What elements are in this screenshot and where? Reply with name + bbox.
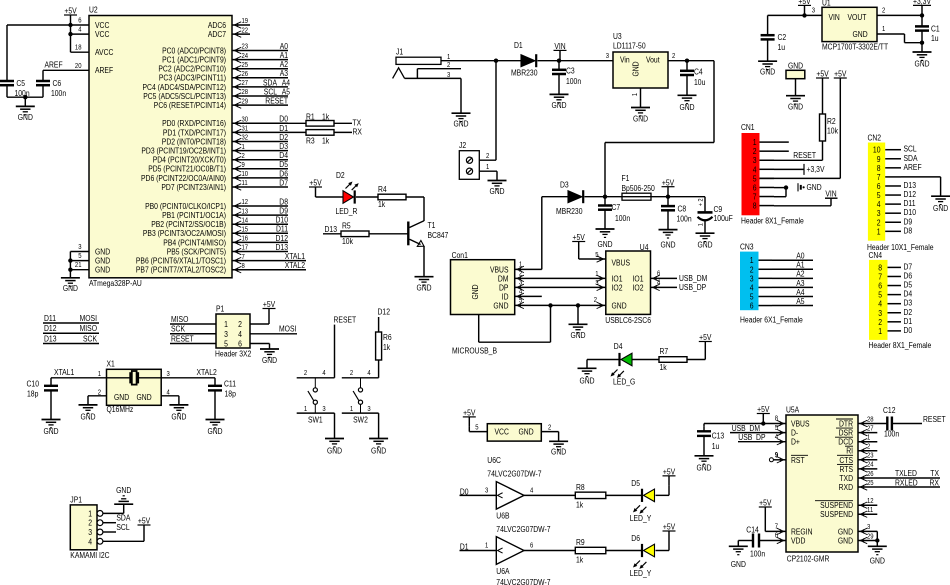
svg-text:PB5 (SCK/PCINT5): PB5 (SCK/PCINT5)	[167, 247, 227, 256]
svg-text:A1: A1	[280, 51, 289, 60]
power +5V for CP2102 VBUS	[757, 405, 770, 425]
svg-text:GND: GND	[327, 447, 342, 456]
svg-text:+5V: +5V	[663, 523, 676, 532]
svg-text:5: 5	[877, 191, 881, 200]
svg-text:IO2: IO2	[633, 283, 644, 292]
U2 pin 2 PD4 (PCINT20/XCK/T0) net D4	[153, 151, 289, 165]
U2 pin 31 PD1 (TXD/PCINT17) net D1	[163, 124, 289, 138]
U5A pin 23 CTS	[837, 453, 874, 465]
U2 pin 16 PB4 (PCINT4/MISO) net D12	[163, 234, 288, 248]
U5A pin 11 SUSPEND	[820, 507, 873, 519]
wire D5 to +5V	[656, 486, 670, 496]
wire AREF net	[43, 61, 89, 71]
svg-text:GND: GND	[612, 301, 627, 310]
svg-text:25: 25	[867, 480, 874, 487]
resistor R7 1k	[632, 347, 687, 372]
svg-text:CTS: CTS	[839, 456, 853, 465]
svg-text:8: 8	[877, 164, 881, 173]
svg-text:10k: 10k	[342, 237, 354, 246]
U5A pin 4 D+	[775, 434, 800, 447]
svg-text:PB2 (PCINT2/SS/OC1B): PB2 (PCINT2/SS/OC1B)	[151, 220, 226, 229]
resistor R2 10k vertical	[820, 88, 839, 160]
svg-text:4: 4	[530, 488, 533, 495]
ground C1/U1	[913, 43, 932, 69]
net D0 input wire	[460, 487, 503, 498]
svg-text:D12: D12	[904, 190, 917, 199]
svg-text:SDA: SDA	[116, 514, 131, 523]
svg-text:F1: F1	[622, 174, 630, 183]
wire P1 RESET	[170, 334, 216, 343]
svg-text:PB6 (PCINT6/XTAL1/TOSC1): PB6 (PCINT6/XTAL1/TOSC1)	[136, 257, 226, 266]
svg-text:D13: D13	[325, 225, 338, 234]
svg-text:J1: J1	[396, 48, 404, 57]
power +5V for JP1	[138, 517, 151, 535]
svg-text:8: 8	[242, 263, 245, 270]
svg-text:9: 9	[242, 162, 245, 169]
svg-text:VIN: VIN	[554, 42, 565, 51]
svg-text:8: 8	[753, 202, 757, 211]
svg-text:10k: 10k	[827, 127, 839, 136]
wire CN1 pin1 stub	[774, 141, 789, 143]
svg-text:D6: D6	[631, 534, 640, 543]
svg-text:PC3 (ADC3/PCINT11): PC3 (ADC3/PCINT11)	[159, 74, 226, 83]
svg-text:5: 5	[775, 425, 778, 432]
svg-text:4: 4	[775, 434, 778, 441]
svg-text:PD1 (TXD/PCINT17): PD1 (TXD/PCINT17)	[163, 128, 226, 137]
svg-text:10u: 10u	[694, 78, 705, 87]
svg-text:+5V: +5V	[757, 405, 770, 414]
svg-text:6: 6	[877, 182, 881, 191]
svg-text:C7: C7	[612, 203, 621, 212]
U2 pin 11 PD7 (PCINT23/AIN1) net D7	[161, 178, 288, 192]
svg-text:GND: GND	[914, 60, 929, 69]
svg-text:GND: GND	[63, 284, 78, 293]
power +5V main rail	[662, 178, 675, 196]
svg-text:R4: R4	[378, 185, 387, 194]
svg-text:D12: D12	[378, 308, 391, 317]
wire JP1 pin4 +5V	[103, 535, 144, 541]
svg-text:GND: GND	[679, 103, 694, 112]
svg-text:U3: U3	[613, 32, 622, 41]
svg-text:D9: D9	[279, 207, 288, 216]
ground C14	[729, 546, 748, 569]
svg-text:2: 2	[882, 7, 885, 14]
svg-text:D8: D8	[279, 197, 288, 206]
svg-text:GND: GND	[697, 241, 712, 250]
svg-text:GND: GND	[137, 393, 152, 402]
wire buffer output pin 6	[524, 543, 575, 551]
svg-text:4: 4	[750, 283, 754, 292]
svg-text:R6: R6	[383, 333, 392, 342]
CN3 net A1	[772, 261, 813, 270]
wire P1 pin2 +5V	[250, 300, 276, 324]
svg-text:MICROUSB_B: MICROUSB_B	[452, 346, 497, 355]
wire USB_DP to D+	[738, 433, 786, 442]
resistor R4 1k	[356, 185, 406, 209]
diode D3 MBR230	[542, 180, 583, 216]
ground SW2	[369, 439, 388, 456]
svg-text:SCL: SCL	[264, 87, 278, 96]
wire JP1 pin3 SCL	[103, 523, 130, 532]
svg-text:2: 2	[350, 370, 353, 377]
switch SW1	[297, 370, 335, 424]
svg-text:+5V: +5V	[263, 300, 276, 309]
svg-text:1: 1	[632, 93, 639, 96]
svg-text:GND: GND	[453, 120, 468, 129]
svg-text:AREF: AREF	[95, 66, 113, 75]
svg-text:GND: GND	[632, 61, 641, 76]
svg-text:A5: A5	[796, 297, 805, 306]
svg-text:SUSPEND: SUSPEND	[820, 501, 853, 510]
svg-text:PD3 (PCINT19/OC2B/INT1): PD3 (PCINT19/OC2B/INT1)	[141, 147, 226, 156]
svg-text:7: 7	[242, 254, 245, 261]
wire CN1 pin2 stub	[774, 150, 789, 152]
svg-text:2: 2	[548, 425, 551, 432]
node C5-C6 ground junction	[23, 95, 27, 99]
svg-text:REGIN: REGIN	[791, 527, 813, 536]
svg-text:3: 3	[750, 274, 754, 283]
U2 pin 26 PC3 (ADC3/PCINT11) net A3	[159, 69, 289, 83]
svg-text:MISO: MISO	[171, 315, 188, 324]
svg-text:Q16MHz: Q16MHz	[107, 405, 134, 414]
svg-text:SDA: SDA	[904, 154, 919, 163]
svg-text:D12: D12	[276, 234, 289, 243]
crystal X1 Q16MHz	[107, 360, 162, 414]
svg-text:1: 1	[98, 371, 101, 378]
U2 pin 7 PB6 (PCINT6/XTAL1/TOSC1) net XTAL1	[136, 252, 306, 266]
svg-text:LED_Y: LED_Y	[630, 514, 652, 523]
svg-text:D7: D7	[279, 178, 288, 187]
svg-text:6: 6	[750, 302, 754, 311]
U2 pin 3 GND	[78, 244, 110, 256]
CN4 net D2	[904, 308, 913, 317]
U4 pin4 USB_DP	[651, 280, 707, 292]
svg-text:CN2: CN2	[868, 134, 882, 143]
svg-text:VIN: VIN	[829, 13, 840, 22]
svg-text:GND: GND	[493, 301, 508, 310]
svg-text:RESET: RESET	[923, 415, 946, 424]
wire U1 GND pin1	[877, 34, 924, 45]
wire CN1 pin3 RESET to R2	[774, 151, 823, 160]
resistor R6 1k vertical	[376, 332, 393, 378]
wire Con1 DP to U4 IO2	[515, 286, 606, 288]
svg-text:2: 2	[878, 318, 882, 327]
svg-text:R9: R9	[576, 538, 585, 547]
svg-text:3: 3	[812, 7, 815, 14]
svg-text:X1: X1	[107, 360, 116, 369]
U4 pin6 USB_DM	[651, 271, 708, 284]
svg-text:6: 6	[878, 282, 882, 291]
svg-text:GND: GND	[660, 241, 675, 250]
svg-text:11: 11	[867, 507, 873, 514]
svg-text:MBR230: MBR230	[511, 68, 538, 77]
svg-text:GND: GND	[570, 331, 585, 340]
capacitor C2 1u	[761, 15, 787, 61]
wire Con1 DM to U4 IO1	[515, 277, 606, 279]
wire U3 pin1 to ground	[640, 88, 642, 108]
wire CN1 pin7	[774, 196, 786, 198]
Con1 pin 4	[517, 289, 524, 300]
U2 pin 22 ADC7	[208, 27, 250, 39]
ground flag	[786, 96, 805, 112]
svg-text:XTAL1: XTAL1	[285, 252, 306, 261]
CN2 net D12	[904, 190, 917, 199]
svg-text:GND: GND	[551, 448, 566, 457]
svg-text:18p: 18p	[27, 390, 39, 399]
svg-text:RESET: RESET	[265, 97, 288, 106]
power +5V for D6	[663, 523, 676, 541]
wire RST stub	[769, 452, 786, 461]
wire CN2 pin7 to ground	[901, 177, 941, 196]
op-amp U2 ATmega328P-AU body	[89, 5, 232, 288]
svg-text:Vout: Vout	[646, 56, 660, 65]
wire P1 pin6 ground	[250, 344, 270, 350]
svg-text:XTAL1: XTAL1	[54, 368, 75, 377]
svg-text:MISO: MISO	[80, 324, 97, 333]
svg-text:PD6 (PCINT22/OC0A/AIN0): PD6 (PCINT22/OC0A/AIN0)	[141, 174, 226, 183]
svg-text:XTAL2: XTAL2	[197, 368, 218, 377]
svg-text:PB3 (PCINT3/OC2A/MOSI): PB3 (PCINT3/OC2A/MOSI)	[143, 229, 226, 238]
wire R4 to T1 collector	[406, 197, 424, 221]
svg-text:RI: RI	[846, 447, 853, 456]
svg-text:3: 3	[367, 406, 370, 413]
wire U3 Vout rail	[605, 61, 714, 197]
svg-text:PC2 (ADC2/PCINT10): PC2 (ADC2/PCINT10)	[158, 65, 226, 74]
svg-text:RESET: RESET	[334, 315, 357, 324]
svg-text:28: 28	[867, 416, 874, 423]
svg-text:24: 24	[242, 53, 249, 60]
svg-text:GND: GND	[471, 284, 480, 299]
U2 pin 15 PB3 (PCINT3/OC2A/MOSI) net D11	[143, 225, 289, 239]
svg-text:7: 7	[878, 272, 882, 281]
wire JP1 pin2 SDA	[103, 514, 131, 523]
ground X1 pin4	[169, 405, 188, 422]
wire buffer output pin 4	[524, 488, 575, 496]
svg-text:AREF: AREF	[904, 163, 922, 172]
svg-text:D12: D12	[44, 324, 57, 333]
svg-text:GND: GND	[788, 61, 803, 70]
svg-text:DSR: DSR	[839, 429, 854, 438]
ground below C5/C6	[16, 97, 35, 122]
U5A pin 6 VDD	[775, 533, 806, 546]
svg-text:+5V: +5V	[699, 333, 712, 342]
svg-text:1: 1	[350, 406, 353, 413]
svg-text:R3: R3	[306, 137, 315, 146]
svg-text:+5V: +5V	[309, 179, 322, 188]
svg-text:1: 1	[447, 54, 450, 61]
svg-text:GND: GND	[43, 427, 58, 436]
svg-text:100n: 100n	[615, 214, 630, 223]
svg-text:PC0 (ADC0/PCINT8): PC0 (ADC0/PCINT8)	[162, 46, 226, 55]
wire CN1 pin4 +3,3V	[774, 164, 825, 175]
CN4 net D5	[904, 281, 913, 290]
CN2 net D9	[904, 217, 913, 226]
power +5V for CN1 pin5	[834, 70, 847, 88]
ground C7	[596, 229, 615, 249]
svg-text:23: 23	[867, 453, 874, 460]
svg-text:3: 3	[224, 330, 228, 339]
Con1 pin 5	[517, 298, 524, 309]
wire CN1 pin8 VIN	[774, 189, 838, 205]
svg-text:1: 1	[242, 144, 245, 151]
svg-text:CP2102-GMR: CP2102-GMR	[787, 555, 830, 564]
svg-text:VIN: VIN	[825, 189, 836, 198]
U2 pin 17 PB5 (SCK/PCINT5) net D13	[167, 243, 289, 257]
led D6 LED_Y yellow	[606, 534, 655, 578]
svg-text:2: 2	[88, 519, 92, 528]
svg-text:3: 3	[606, 53, 609, 60]
svg-text:C1: C1	[931, 24, 940, 33]
svg-text:13: 13	[242, 208, 249, 215]
svg-text:3: 3	[485, 488, 488, 495]
capacitor C5 100n	[0, 25, 43, 98]
svg-text:14: 14	[242, 217, 249, 224]
svg-text:A3: A3	[280, 69, 289, 78]
svg-text:USB_DM: USB_DM	[732, 424, 761, 433]
svg-text:7: 7	[775, 524, 778, 531]
svg-text:VOUT: VOUT	[848, 13, 867, 22]
svg-text:1: 1	[753, 138, 757, 147]
svg-text:TXLED: TXLED	[895, 469, 917, 478]
svg-text:DM: DM	[498, 274, 509, 283]
svg-text:SUSPEND: SUSPEND	[820, 510, 853, 519]
net tie D12-MISO	[43, 324, 99, 333]
wire U6C pin2 to ground	[541, 432, 558, 442]
led D2 LED_R red	[316, 171, 359, 216]
svg-text:1: 1	[486, 164, 489, 171]
wire J2 pin2 to J1 junction	[479, 61, 496, 161]
svg-text:C12: C12	[883, 406, 896, 415]
svg-text:MBR230: MBR230	[556, 207, 583, 216]
X1 pin4 ground	[161, 389, 179, 405]
svg-text:9: 9	[775, 452, 778, 459]
CN4 net D1	[904, 317, 913, 326]
U5A pin 12 SUSPEND	[815, 498, 874, 510]
svg-text:R1: R1	[306, 112, 315, 121]
svg-text:GND: GND	[18, 113, 33, 122]
U2 pin 21 GND	[75, 262, 110, 274]
resistor R5 10k	[323, 222, 408, 247]
svg-text:3: 3	[595, 280, 598, 287]
CN3 net A2	[772, 270, 813, 279]
svg-text:Header 8X1_Female: Header 8X1_Female	[869, 341, 932, 350]
svg-text:TX: TX	[353, 119, 362, 128]
svg-text:25: 25	[242, 62, 249, 69]
U5A pin 1 DCD	[835, 435, 870, 447]
svg-text:30: 30	[242, 117, 249, 124]
svg-text:5: 5	[878, 291, 882, 300]
svg-text:1: 1	[224, 320, 228, 329]
Con1 pin 1	[517, 262, 524, 273]
wire Con1 VBUS to D3	[515, 197, 542, 270]
svg-text:GND: GND	[551, 101, 566, 110]
svg-text:SCK: SCK	[171, 325, 186, 334]
svg-text:D6: D6	[279, 169, 288, 178]
wire +5V down to CN1 pin5	[760, 88, 841, 178]
svg-text:4: 4	[238, 330, 242, 339]
svg-text:PB4 (PCINT4/MISO): PB4 (PCINT4/MISO)	[163, 238, 226, 247]
svg-text:D13: D13	[276, 243, 289, 252]
svg-text:GND: GND	[416, 284, 431, 293]
wire C2 to U1 Vin	[768, 14, 822, 16]
svg-text:D11: D11	[44, 314, 56, 323]
wire Con1 ID stub	[515, 295, 542, 297]
wire DTR to C12	[858, 423, 887, 425]
svg-text:D6: D6	[904, 271, 913, 280]
svg-text:ADC7: ADC7	[208, 30, 227, 39]
svg-text:PB1 (PCINT1/OC1A): PB1 (PCINT1/OC1A)	[162, 211, 226, 220]
U4 pin2	[594, 297, 604, 308]
svg-text:C8: C8	[678, 204, 687, 213]
svg-text:U2: U2	[89, 5, 98, 14]
svg-text:GND: GND	[597, 240, 612, 249]
svg-text:3: 3	[753, 156, 757, 165]
power +5V for U4 pin5	[572, 233, 606, 262]
U2 pin 12 PB0 (PCINT0/CLKO/ICP1) net D8	[145, 197, 288, 211]
capacitor C10 18p	[27, 378, 59, 420]
capacitor C9 100uF polarized	[698, 197, 733, 234]
ground C8	[659, 230, 678, 250]
wire U2 ground pins	[68, 252, 89, 278]
svg-text:A2: A2	[280, 60, 289, 69]
wire JP1 pin1 to ground	[103, 504, 124, 513]
wire U5A GND pins	[858, 531, 880, 546]
node C4 junction	[685, 59, 689, 63]
CN2 net D11	[904, 199, 916, 208]
svg-text:3: 3	[78, 244, 81, 251]
svg-text:SCK: SCK	[83, 334, 98, 343]
led D5 LED_Y yellow	[606, 479, 655, 523]
svg-text:4: 4	[78, 27, 81, 34]
svg-text:VBUS: VBUS	[791, 420, 810, 429]
svg-text:D3: D3	[279, 142, 288, 151]
svg-text:LED_R: LED_R	[336, 207, 358, 216]
ground X1 pin2	[79, 405, 98, 422]
svg-text:+5V: +5V	[816, 70, 829, 79]
U5A pin 8 VBUS	[775, 416, 810, 429]
svg-text:D9: D9	[904, 217, 913, 226]
svg-text:1u: 1u	[712, 442, 720, 451]
svg-text:C3: C3	[566, 67, 575, 76]
svg-text:1: 1	[698, 223, 705, 226]
svg-text:4: 4	[753, 165, 757, 174]
led D4 LED_G green	[587, 342, 635, 387]
svg-text:27: 27	[867, 425, 874, 432]
svg-text:3: 3	[447, 72, 450, 79]
svg-text:1k: 1k	[660, 363, 668, 372]
svg-text:D4: D4	[279, 151, 288, 160]
svg-text:+ 2: + 2	[698, 198, 705, 206]
svg-text:A1: A1	[796, 261, 805, 270]
U5A pin 7 REGIN	[775, 524, 813, 537]
svg-text:USBLC6-2SC6: USBLC6-2SC6	[605, 316, 651, 325]
svg-text:CN3: CN3	[740, 242, 754, 251]
CN4 net D3	[904, 299, 913, 308]
ground SW1	[325, 439, 344, 456]
svg-text:GND: GND	[171, 412, 186, 421]
svg-text:SCL: SCL	[116, 523, 130, 532]
svg-text:2: 2	[238, 320, 242, 329]
connector J2	[459, 141, 489, 180]
svg-text:GND: GND	[519, 427, 534, 436]
U5A pin 24 RTS	[837, 462, 874, 474]
capacitor C3 100n	[552, 61, 581, 95]
svg-text:VCC: VCC	[95, 21, 110, 30]
power +3,3V symbol	[913, 0, 932, 15]
buffer U6A 74LVC2G07DW-7 triangle	[496, 537, 551, 585]
wire D6 to +5V	[656, 541, 670, 551]
power +5V for R2	[816, 70, 829, 88]
